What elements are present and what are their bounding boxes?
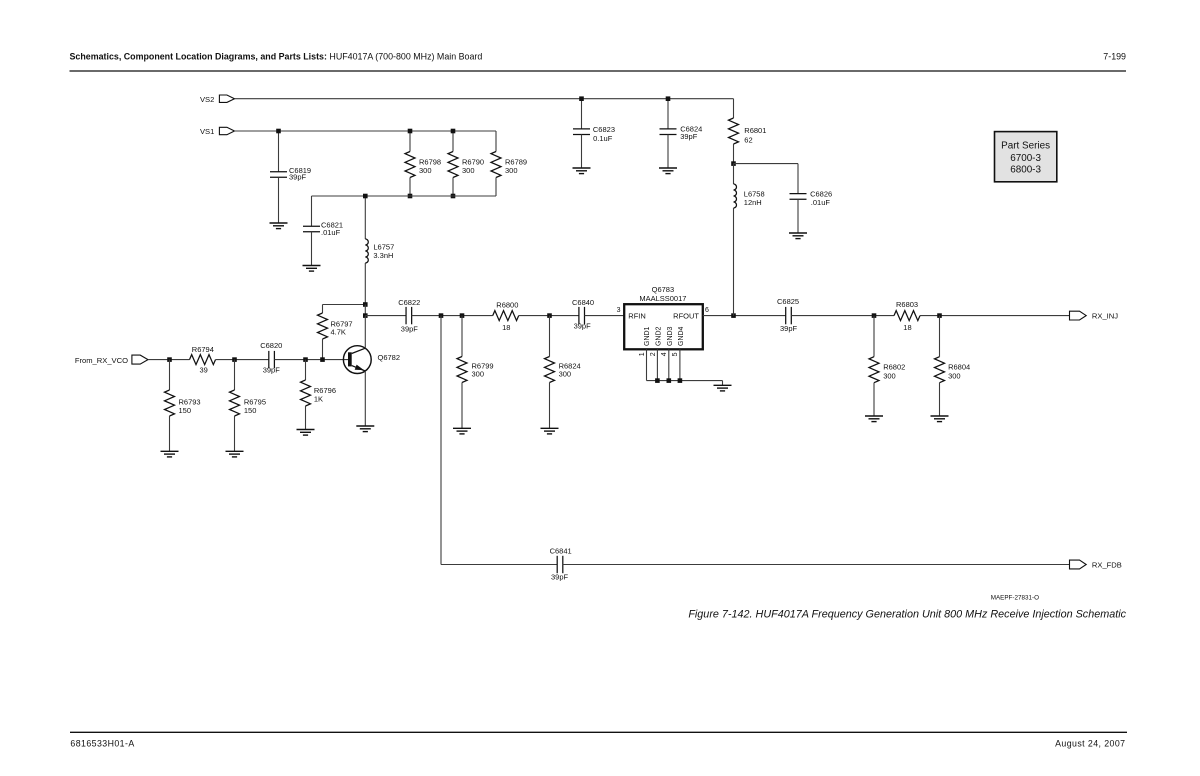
resistor R6798: [409, 131, 411, 152]
ground C6821: [303, 265, 321, 267]
part series note box: [995, 132, 1057, 182]
node pin4 gnd junction: [667, 378, 672, 383]
svg-text:39pF: 39pF: [780, 324, 798, 333]
svg-text:C6822: C6822: [398, 298, 420, 307]
wire C6822 to R6800: [412, 315, 493, 317]
wire resistor-bank bottom bus: [312, 195, 497, 197]
svg-text:6700-3: 6700-3: [1010, 153, 1041, 164]
svg-text:7-199: 7-199: [1103, 52, 1126, 62]
svg-text:39pF: 39pF: [289, 173, 307, 182]
svg-text:C6825: C6825: [777, 297, 799, 306]
svg-text:1: 1: [639, 352, 646, 356]
svg-text:300: 300: [948, 371, 961, 380]
op-amp U Q6783 MAALSS0017: [617, 285, 709, 349]
svg-text:R6803: R6803: [896, 300, 918, 309]
node input-R6793 junction: [167, 357, 172, 362]
node R6824 junction: [547, 313, 552, 318]
svg-text:5: 5: [672, 352, 679, 356]
svg-text:R6798: R6798: [419, 158, 441, 167]
ground C6823: [573, 167, 591, 169]
inductor L6758: [733, 164, 735, 184]
wire emitter to ground: [364, 371, 366, 426]
wire VS1 net: [235, 130, 497, 132]
ground IC: [714, 384, 732, 386]
pin 5 wire: [679, 349, 681, 380]
pin 1 wire: [646, 349, 648, 380]
svg-text:150: 150: [179, 406, 192, 415]
connector VS2: [219, 95, 234, 102]
capacitor C6825: [785, 307, 787, 324]
svg-text:RFIN: RFIN: [628, 312, 646, 321]
capacitor C6822: [405, 307, 407, 324]
svg-text:39: 39: [200, 366, 208, 375]
wire collector feed: [364, 305, 366, 316]
wire RX_FDB right segment: [563, 564, 1070, 566]
svg-text:1K: 1K: [314, 395, 323, 404]
svg-text:39pF: 39pF: [574, 322, 592, 331]
wire C6840 to pin 3: [585, 315, 625, 317]
svg-text:From_RX_VCO: From_RX_VCO: [75, 356, 128, 365]
ground R6802: [865, 415, 883, 417]
resistor R6790: [452, 131, 454, 152]
inductor L6757: [364, 196, 366, 239]
node collector main junction: [363, 313, 368, 318]
svg-text:6816533H01-A: 6816533H01-A: [70, 738, 134, 748]
node R6798 bottom junction: [408, 194, 413, 199]
svg-text:Q6783: Q6783: [652, 285, 675, 294]
capacitor C6820: [268, 351, 270, 368]
wire node to C6826: [734, 163, 799, 165]
svg-text:12nH: 12nH: [744, 198, 762, 207]
footer rule: [70, 731, 1127, 733]
svg-text:Figure 7-142. HUF4017A Frequen: Figure 7-142. HUF4017A Frequency Generat…: [688, 609, 1126, 621]
svg-text:3.3nH: 3.3nH: [373, 251, 393, 260]
svg-text:VS1: VS1: [200, 127, 214, 136]
svg-text:Q6782: Q6782: [378, 353, 401, 362]
header rule: [70, 70, 1127, 72]
svg-text:300: 300: [883, 371, 896, 380]
svg-text:62: 62: [744, 136, 752, 145]
svg-text:300: 300: [462, 166, 475, 175]
resistor R6803: [894, 311, 920, 321]
svg-text:MAALSS0017: MAALSS0017: [639, 294, 686, 303]
capacitor C6823: [581, 99, 583, 129]
svg-text:GND4: GND4: [678, 326, 685, 346]
wire R6794 to C6820: [216, 359, 269, 361]
svg-text:C6841: C6841: [550, 547, 572, 556]
capacitor C6840: [578, 307, 580, 324]
resistor R6789: [495, 131, 497, 152]
node R6801-L6758 junction: [731, 161, 736, 166]
resistor R6799: [461, 316, 463, 357]
svg-text:4: 4: [661, 352, 668, 356]
node R6799 junction: [460, 313, 465, 318]
svg-text:3: 3: [617, 307, 621, 314]
svg-text:39pF: 39pF: [551, 572, 569, 581]
node RX_FDB tap junction: [439, 313, 444, 318]
svg-text:Schematics, Component Location: Schematics, Component Location Diagrams,…: [70, 52, 483, 62]
svg-text:R6801: R6801: [744, 126, 766, 135]
node L6757 bus junction: [363, 194, 368, 199]
svg-text:RX_FDB: RX_FDB: [1092, 560, 1122, 569]
node pin5 gnd junction: [678, 378, 683, 383]
svg-text:.01uF: .01uF: [321, 228, 341, 237]
svg-text:300: 300: [505, 166, 518, 175]
svg-text:R6804: R6804: [948, 363, 970, 372]
ground C6819: [270, 222, 288, 224]
svg-text:R6790: R6790: [462, 158, 484, 167]
wire RX_FDB left segment: [441, 564, 557, 566]
connector From_RX_VCO: [132, 355, 148, 364]
wire main line left segment: [365, 315, 406, 317]
resistor R6793: [169, 360, 171, 390]
ground C6824: [659, 167, 677, 169]
svg-text:.01uF: .01uF: [811, 198, 831, 207]
resistor R6802: [873, 316, 875, 357]
node R6804 junction: [937, 313, 942, 318]
wire collector: [364, 316, 366, 349]
ground R6804: [931, 415, 949, 417]
node RFOUT-L6758 junction: [731, 313, 736, 318]
resistor R6824: [549, 316, 551, 357]
node VS2-C6824 junction: [666, 96, 671, 101]
ground Q6782 emitter: [356, 425, 374, 427]
wire input to R6794: [148, 359, 190, 361]
svg-text:39pF: 39pF: [401, 325, 419, 334]
node VS1-R6790 junction: [451, 129, 456, 134]
svg-text:R6789: R6789: [505, 158, 527, 167]
svg-text:39pF: 39pF: [680, 132, 698, 141]
svg-text:GND3: GND3: [667, 326, 674, 346]
svg-text:R6796: R6796: [314, 386, 336, 395]
svg-text:C6840: C6840: [572, 298, 594, 307]
node R6802 junction: [872, 313, 877, 318]
ground C6826: [789, 232, 807, 234]
ground R6799: [453, 427, 471, 429]
svg-text:39pF: 39pF: [263, 365, 281, 374]
svg-text:18: 18: [903, 323, 911, 332]
svg-text:300: 300: [472, 370, 485, 379]
svg-text:GND2: GND2: [655, 326, 662, 346]
ground R6824: [541, 427, 559, 429]
svg-text:R6795: R6795: [244, 397, 266, 406]
svg-text:300: 300: [419, 166, 432, 175]
wire VS2 net: [235, 98, 734, 100]
node R6790 bottom junction: [451, 194, 456, 199]
node C6820-R6796 junction: [303, 357, 308, 362]
svg-text:R6802: R6802: [883, 363, 905, 372]
node pin2 gnd junction: [655, 378, 660, 383]
svg-text:R6794: R6794: [192, 345, 214, 354]
wire IC ground bus: [647, 380, 723, 382]
wire C6820 to base: [274, 359, 348, 361]
svg-text:Part Series: Part Series: [1001, 140, 1050, 151]
node base-R6797 junction: [320, 357, 325, 362]
resistor R6800: [493, 311, 519, 321]
resistor R6797: [323, 304, 366, 306]
svg-text:0.1uF: 0.1uF: [593, 134, 613, 143]
capacitor C6824: [667, 99, 669, 129]
capacitor C6819: [278, 131, 280, 172]
capacitor C6826: [797, 164, 799, 194]
node R6794-R6795 junction: [232, 357, 237, 362]
svg-text:150: 150: [244, 406, 257, 415]
node VS1-R6798 junction: [408, 129, 413, 134]
pin 2 wire: [656, 349, 658, 380]
transistor Q6782: [343, 346, 371, 374]
connector RX_INJ: [1070, 311, 1087, 320]
resistor R6794: [190, 355, 216, 365]
resistor R6796: [305, 360, 307, 380]
capacitor C6841: [556, 556, 558, 573]
svg-text:6: 6: [705, 307, 709, 314]
svg-text:RX_INJ: RX_INJ: [1092, 311, 1118, 320]
svg-text:C6820: C6820: [260, 341, 282, 350]
svg-text:RFOUT: RFOUT: [673, 312, 699, 321]
wire R6800 to C6840: [519, 315, 579, 317]
connector VS1: [219, 127, 234, 134]
ground R6796: [297, 429, 315, 431]
wire RFOUT to node: [703, 315, 786, 317]
svg-text:18: 18: [502, 323, 510, 332]
ground R6793: [161, 450, 179, 452]
svg-text:2: 2: [650, 352, 657, 356]
svg-text:4.7K: 4.7K: [331, 327, 346, 336]
svg-text:GND1: GND1: [644, 326, 651, 346]
svg-text:MAEPF-27831-O: MAEPF-27831-O: [991, 595, 1039, 602]
capacitor C6821: [311, 196, 313, 226]
svg-text:R6793: R6793: [179, 397, 201, 406]
svg-text:R6800: R6800: [496, 300, 518, 309]
wire RX_FDB vertical drop: [440, 316, 442, 565]
connector RX_FDB: [1070, 560, 1087, 569]
wire R6803 to RX_INJ: [920, 315, 1070, 317]
node VS1-C6819 junction: [276, 129, 281, 134]
resistor R6801: [733, 99, 735, 118]
resistor R6795: [234, 360, 236, 390]
svg-text:August 24, 2007: August 24, 2007: [1055, 738, 1125, 748]
svg-text:6800-3: 6800-3: [1010, 165, 1041, 176]
ground R6795: [226, 450, 244, 452]
svg-text:VS2: VS2: [200, 95, 214, 104]
resistor R6804: [939, 316, 941, 357]
svg-text:300: 300: [559, 370, 572, 379]
node VS2-C6823 junction: [579, 96, 584, 101]
node collector-R6797 junction: [363, 302, 368, 307]
wire C6825 to R6803: [791, 315, 894, 317]
pin 4 wire: [668, 349, 670, 380]
